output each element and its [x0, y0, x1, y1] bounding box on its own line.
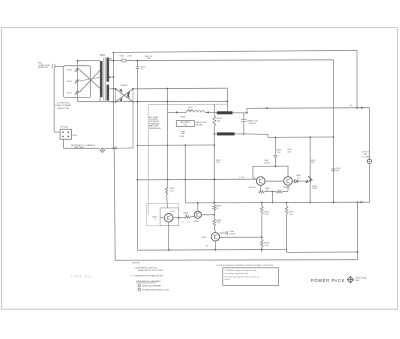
wire Q607 base [160, 217, 164, 219]
svg-text:normal.: normal. [225, 278, 232, 281]
svg-text:125µF: 125µF [229, 234, 235, 236]
bridge rectifier D602 outline [115, 89, 117, 102]
wire left bus lower [114, 148, 115, 260]
bridge diagonal 2 [116, 89, 133, 102]
svg-text:Q620: Q620 [194, 221, 200, 223]
wire secondary top tap [109, 58, 111, 60]
svg-text:47: 47 [185, 215, 187, 217]
transformer secondary winding lower [107, 85, 110, 101]
svg-text:1.5k: 1.5k [277, 152, 281, 154]
svg-text:P601: P601 [72, 135, 78, 137]
selector wiring diagonal 3 [79, 77, 100, 81]
svg-text:VOLTAGE READINGS OBTAINED UNDE: VOLTAGE READINGS OBTAINED UNDER NO-SIGNA… [217, 264, 274, 267]
wire right lower corner [357, 202, 359, 259]
resistor R609 [261, 203, 263, 206]
wire bridge top out [133, 87, 227, 90]
resistor R615 [173, 217, 185, 219]
reference diagram 2 [138, 284, 141, 287]
wire Q612 down [214, 241, 216, 250]
svg-text:5.6k: 5.6k [289, 214, 293, 216]
wire collector left down [252, 166, 254, 177]
wire lower rail [78, 100, 228, 102]
svg-text:MOD 561A: MOD 561A [356, 277, 367, 280]
wire Q612 collector [220, 236, 262, 238]
wire bottom bus inner [137, 248, 286, 251]
inductor L601 [176, 111, 186, 113]
wire output riser lower [369, 163, 371, 202]
wire L601 from rail [167, 111, 176, 113]
transistor Q606 [284, 177, 293, 186]
reference diagram 3 [138, 288, 141, 291]
emitter resistor R607a [260, 185, 262, 191]
transformer primary winding [100, 61, 103, 97]
twist-lok capacitor C601 [243, 113, 245, 119]
svg-text:4.7 TRML: 4.7 TRML [362, 156, 370, 158]
svg-text:POWER PACK: POWER PACK [311, 278, 345, 283]
svg-text:2N1041: 2N1041 [283, 187, 291, 189]
resistor R603 [213, 116, 216, 127]
capacitor C613 [331, 168, 335, 170]
wire output riser [369, 108, 371, 159]
bridge diode arrows [119, 89, 122, 93]
junction x mark [114, 147, 117, 150]
wire right corner 1 [356, 50, 358, 108]
fusible bar 2 [217, 132, 235, 135]
transistor Q612 [211, 233, 219, 241]
wire bar2 right [235, 133, 244, 135]
wire Q620 top [197, 203, 199, 211]
svg-text:Buss line operating with 115V,: Buss line operating with 115V, controls … [225, 276, 260, 279]
condition note box [223, 268, 279, 286]
capacitor C602 [136, 66, 139, 68]
wire B+ feed [246, 108, 248, 112]
svg-text:4-MR52: 4-MR52 [120, 85, 128, 87]
wire outer loop bottom [115, 259, 357, 262]
note diamond 1 [100, 148, 105, 153]
selector wiring diagonal 2 [79, 70, 100, 92]
svg-text:117V: 117V [67, 92, 72, 94]
wire Q620 right [201, 214, 214, 216]
wire minus bus [185, 201, 369, 204]
svg-text:2N1041: 2N1041 [249, 187, 257, 189]
svg-text:(BRN-BLK): (BRN-BLK) [38, 67, 48, 69]
svg-text:VERTICAL PREAMP: VERTICAL PREAMP [142, 285, 161, 288]
svg-text:(-1.5): (-1.5) [239, 177, 244, 179]
svg-text:234V: 234V [67, 70, 73, 72]
wire plug to chassis return [63, 139, 65, 148]
svg-text:VOLTAGE readings were obtained: VOLTAGE readings were obtained with [225, 269, 257, 272]
capacitor C605 riser [274, 137, 276, 154]
wire x185 [184, 145, 186, 203]
svg-text:6.2: 6.2 [297, 177, 300, 179]
wire Q607 down [168, 222, 170, 250]
svg-text:2.2k: 2.2k [170, 190, 174, 192]
Q607 box [160, 208, 179, 226]
svg-text:TYPE 561: TYPE 561 [71, 274, 93, 278]
svg-text:15k: 15k [311, 162, 314, 164]
svg-text:2. *THERMISTOR IN HEAT MOUNT: 2. *THERMISTOR IN HEAT MOUNT [131, 274, 164, 277]
svg-text:1.5k: 1.5k [264, 245, 268, 247]
svg-text:2.2k: 2.2k [216, 222, 220, 224]
svg-text:125µF: 125µF [264, 163, 270, 165]
wire x167 upper [166, 89, 168, 180]
svg-text:220V: 220V [67, 81, 73, 83]
resistor R620 [213, 219, 216, 227]
wire emitter center tap [272, 192, 274, 203]
bridge corner dots [115, 88, 117, 90]
wire left bus [112, 53, 114, 149]
svg-text:2.2k: 2.2k [216, 162, 220, 164]
wire x133 down [132, 102, 134, 148]
svg-text:SEMICONDUCTOR TYPES.: SEMICONDUCTOR TYPES. [138, 270, 164, 272]
svg-text:-1.2: -1.2 [181, 221, 184, 223]
svg-text:10.35: 10.35 [312, 188, 317, 190]
svg-text:1k: 1k [216, 208, 218, 210]
transistor Q605 [256, 177, 265, 186]
svg-text:3: 3 [139, 290, 140, 292]
wire zener branch [309, 137, 311, 202]
wire riser [112, 53, 114, 61]
svg-text:117V AC: 117V AC [60, 125, 69, 128]
wire bridge right down [226, 88, 228, 111]
fuse F601 [121, 59, 126, 62]
svg-text:GND THRU: GND THRU [74, 147, 85, 149]
wire diamond to bus [104, 147, 113, 149]
svg-text:line voltage adjusted through: line voltage adjusted through [225, 272, 249, 275]
thermal box outer [146, 204, 178, 226]
svg-text:NOTES:: NOTES: [132, 263, 141, 265]
transformer tap 2 [109, 76, 113, 78]
transformer secondary winding upper [107, 58, 110, 82]
wire base link [265, 180, 284, 182]
svg-text:LINE VOLTAGE: LINE VOLTAGE [55, 104, 71, 107]
resistor R618 [261, 237, 263, 239]
svg-text:2: 2 [139, 286, 140, 288]
wire mid vertical x137 [137, 61, 139, 67]
svg-text:2x20µF): 2x20µF) [249, 123, 256, 125]
bridge diagonal 1 [116, 89, 133, 102]
svg-text:1.5k: 1.5k [264, 214, 268, 216]
svg-text:T601: T601 [100, 55, 106, 57]
svg-text:REFERENCE: REFERENCE [149, 128, 162, 130]
fusible bar 1 [217, 111, 233, 114]
wire base feed [138, 178, 257, 181]
wire collector rail [253, 165, 288, 167]
svg-text:2.5A: 2.5A [127, 55, 132, 58]
transformer core [103, 57, 105, 101]
wire x214 vertical [213, 104, 215, 115]
inner box faint [147, 105, 149, 215]
svg-text:10k: 10k [217, 120, 220, 122]
wire right corner 2 [332, 60, 334, 203]
transformer tap 3 [109, 88, 116, 90]
minus bus arrow [361, 201, 364, 203]
wire input to selector [54, 65, 63, 67]
svg-text:C603: C603 [180, 136, 185, 138]
capacitor C609 [220, 232, 225, 234]
transistor Q620 [194, 211, 201, 218]
svg-text:POWER REGULATOR & CRT: POWER REGULATOR & CRT [142, 289, 170, 292]
wire top bus + [113, 50, 357, 52]
selector common wire [77, 61, 79, 102]
wire faint x145 [138, 144, 215, 146]
svg-text:LR601: LR601 [180, 116, 186, 118]
wire x214 to Q612 [213, 211, 215, 219]
svg-text:VALUE): VALUE) [196, 123, 203, 126]
see parts list box [176, 121, 194, 127]
wire mid cross [268, 136, 334, 138]
power plug P601 [60, 129, 71, 139]
capacitor C603 [181, 131, 184, 133]
B+ arrow [361, 107, 364, 109]
emitter resistor R607b [287, 185, 289, 191]
wire collector right down [287, 166, 289, 177]
transformer tap 4 [109, 101, 116, 103]
zener D608 [308, 176, 312, 180]
svg-text:-8.2: -8.2 [205, 246, 208, 248]
wire bottom step [286, 249, 288, 252]
wire bar1 up [227, 101, 229, 103]
selector wiring diagonal 1 [79, 70, 100, 89]
svg-text:-1.4: -1.4 [187, 221, 190, 223]
wire primary top [78, 60, 100, 62]
wire input down [53, 68, 55, 132]
resistor R612 [167, 180, 169, 187]
selector box [63, 66, 90, 98]
resistor R617 [286, 203, 288, 206]
tektronix diamond logo [347, 276, 353, 282]
svg-text:(-6.2): (-6.2) [170, 211, 175, 213]
resistor R614 [213, 205, 216, 211]
transistor Q607 [164, 214, 173, 223]
wire secondary top [109, 59, 333, 62]
svg-text:SELECTOR: SELECTOR [57, 108, 69, 110]
diode D606 [292, 180, 294, 182]
